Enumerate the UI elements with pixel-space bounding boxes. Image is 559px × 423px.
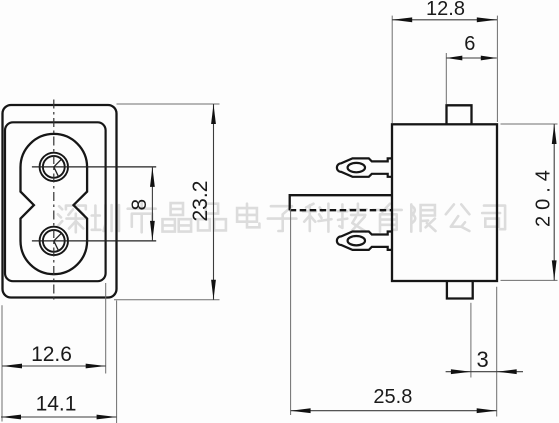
lower lug hole xyxy=(348,236,365,245)
lower pin horizontal centerline xyxy=(32,240,156,242)
lower pin outer circle xyxy=(40,227,68,255)
dimension 14.1 line xyxy=(1,416,117,418)
upper pin outer circle xyxy=(40,153,68,181)
side view top tab xyxy=(447,105,472,124)
dimension 25.8 line xyxy=(291,410,497,412)
dimension 20.4 extension lines xyxy=(501,123,558,125)
upper pin wedge lines xyxy=(54,159,62,177)
dimension 23.2 extension lines xyxy=(117,103,220,105)
dimension 25.8 extension line xyxy=(290,208,292,415)
lower pin wedge lines xyxy=(54,233,62,251)
svg-text:12.8: 12.8 xyxy=(426,0,465,20)
dimension 20.4 line xyxy=(553,124,555,280)
dimension 14.1 extension line xyxy=(116,301,118,423)
front view outer housing outline xyxy=(3,105,117,298)
upper pin inner circle xyxy=(43,156,65,178)
dimension 3 extension lines xyxy=(470,303,472,378)
upper lug hole xyxy=(348,163,365,172)
dimension 6 line xyxy=(446,57,497,59)
svg-text:3: 3 xyxy=(476,347,488,372)
side view body outline xyxy=(392,124,497,281)
svg-text:12.6: 12.6 xyxy=(31,343,72,366)
dimension 12.8 line xyxy=(392,19,497,21)
upper pin horizontal centerline xyxy=(32,166,156,168)
svg-text:20.4: 20.4 xyxy=(533,164,555,227)
dimension 3 line xyxy=(446,371,523,373)
svg-text:6: 6 xyxy=(464,33,475,55)
dimension 12.6 line xyxy=(2,365,106,367)
dimension 8 line xyxy=(151,167,153,241)
socket recess outline xyxy=(21,134,88,274)
lower solder lug terminal xyxy=(337,232,392,250)
side view bottom tab xyxy=(447,281,473,299)
dimension 12.8 extension lines xyxy=(391,16,393,123)
vertical dash-dot centerline xyxy=(53,100,55,304)
svg-text:25.8: 25.8 xyxy=(373,386,412,408)
mounting flange plate xyxy=(290,195,392,210)
dimension 12.6 extension lines xyxy=(105,283,107,374)
front view inner bezel outline xyxy=(5,122,106,281)
dimension 23.2 line xyxy=(213,104,215,300)
svg-text:14.1: 14.1 xyxy=(36,392,77,415)
svg-text:23.2: 23.2 xyxy=(189,181,212,222)
lower pin inner circle xyxy=(43,230,65,252)
dimension 6 extension line xyxy=(445,53,447,104)
svg-text:8: 8 xyxy=(128,199,151,211)
upper solder lug terminal xyxy=(337,158,392,176)
watermark company name xyxy=(57,203,505,232)
